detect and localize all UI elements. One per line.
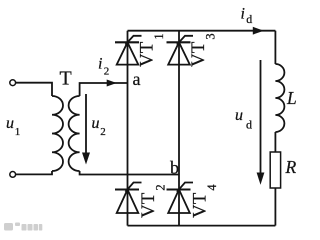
wire inductor to resistor	[274, 132, 276, 152]
wire resistor to bottom bus	[274, 188, 276, 226]
inductor L	[275, 64, 284, 132]
svg-text:i: i	[241, 6, 245, 23]
bridge left leg	[127, 31, 129, 226]
svg-text:u: u	[6, 115, 14, 132]
svg-text:u: u	[92, 115, 100, 132]
wire primary bottom	[16, 171, 52, 174]
thyristor VT3	[167, 36, 194, 65]
arrow id	[253, 27, 264, 35]
svg-text:R: R	[285, 157, 297, 177]
transformer T primary winding	[52, 96, 63, 171]
top bus	[128, 30, 276, 32]
svg-text:VT2: VT2	[138, 184, 168, 218]
bridge right leg	[178, 31, 180, 226]
thyristor VT2	[115, 183, 142, 214]
svg-text:d: d	[246, 12, 252, 26]
svg-text:2: 2	[104, 66, 110, 78]
label ud	[235, 107, 252, 131]
terminal top-left	[10, 80, 16, 86]
svg-text:T: T	[60, 67, 72, 89]
svg-text:a: a	[133, 69, 141, 89]
label u2	[92, 115, 106, 138]
svg-text:u: u	[235, 107, 243, 124]
svg-text:i: i	[98, 56, 102, 73]
bottom bus	[128, 225, 276, 227]
label i2	[98, 56, 109, 78]
transformer T secondary winding	[69, 96, 80, 171]
thyristor VT1	[115, 36, 142, 65]
svg-text:2: 2	[100, 126, 106, 138]
watermark	[4, 223, 42, 231]
label u1	[6, 115, 20, 138]
wire secondary bottom to node b	[80, 171, 179, 175]
svg-text:b: b	[170, 157, 179, 177]
wire secondary top / i2 wire to node a	[80, 83, 128, 96]
svg-text:1: 1	[15, 126, 20, 138]
wire primary top	[16, 83, 52, 96]
thyristor VT4	[167, 183, 194, 214]
arrow i2	[107, 80, 117, 87]
terminal bottom-left	[10, 172, 16, 178]
load branch wire top	[274, 31, 276, 64]
svg-text:d: d	[246, 117, 252, 131]
svg-text:L: L	[286, 88, 297, 108]
svg-text:VT4: VT4	[189, 184, 219, 218]
label id	[241, 6, 253, 26]
arrow u2	[85, 94, 87, 153]
svg-text:VT3: VT3	[188, 33, 218, 67]
resistor R	[270, 152, 280, 188]
arrow ud	[260, 60, 262, 173]
svg-text:VT1: VT1	[136, 33, 166, 67]
